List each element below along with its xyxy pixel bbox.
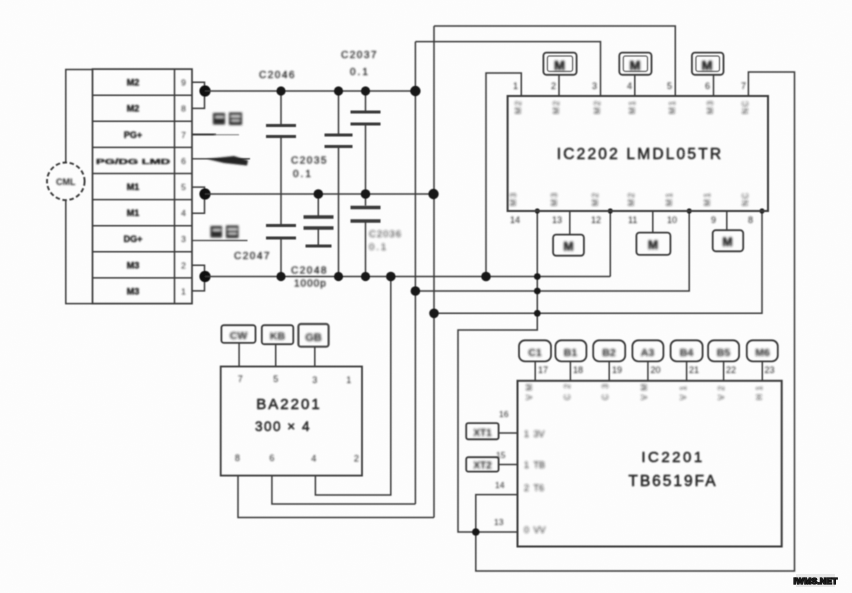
wire h3 to IC2202 pin 8 [434, 211, 762, 313]
capacitor C2047 label [234, 251, 271, 262]
driver IC2201 body [518, 381, 782, 547]
motor CML label [56, 177, 76, 187]
IC2202 title label [557, 146, 724, 163]
wire IC2202 pin 14 to IC2201 pin 13 [458, 211, 537, 532]
capacitor C2046 [266, 91, 296, 224]
BA2201 top pin numbers [238, 374, 352, 385]
net label box IC2201 pin 23 [747, 340, 778, 361]
net label box pin 13 [553, 211, 584, 256]
wire top bus M2 [205, 90, 415, 92]
wire pin 6 arrow [192, 158, 250, 160]
net label box IC2201 pin 18 [555, 340, 586, 361]
net label box IC2201 pin 21 [671, 340, 703, 361]
net label box IC2201 pin 22 [708, 340, 739, 361]
IC2202 bottom pin numbers [510, 215, 753, 225]
net label box pin 2 text [554, 58, 565, 73]
junction dot h3 start [429, 309, 439, 319]
node M3 junction [199, 271, 210, 282]
junction dot pin13-14 cross [472, 528, 480, 536]
wire mid bus M1 [205, 193, 434, 195]
wire IC2202 pin 3 top hook [415, 42, 600, 96]
net label box IC2201 pin 20 text [641, 347, 655, 359]
junction dots h1 [276, 272, 490, 282]
IC2201 top pin wires [535, 361, 762, 380]
wire h2 to IC2202 pin 10 [415, 211, 689, 291]
net label box BA pin 3 text [305, 332, 322, 344]
capacitor C2047 [266, 226, 296, 277]
net label box IC2201 pin 22 text [717, 347, 731, 359]
IC2201 title label [628, 449, 717, 490]
annotation speed label pin 3 [211, 226, 239, 239]
net label box IC2201 pin 19 [593, 340, 625, 361]
IC2202 internal bottom pin names [509, 192, 750, 206]
IC2202 internal bottom marks [512, 176, 752, 178]
wire bracket pins 5-4 [192, 187, 205, 213]
net label box pin 4 [619, 53, 651, 96]
BA2201 bottom pin numbers [235, 453, 359, 464]
wire motor to connector bottom [66, 200, 93, 304]
node M1 junction [199, 188, 210, 199]
capacitor C2036 [351, 194, 381, 277]
op-amp IC2202 body [508, 96, 768, 211]
net label box IC2201 pin 18 text [564, 347, 578, 359]
wire pin 3 DG+ stub [192, 240, 248, 242]
wire IC2202 pin 1 hook [486, 73, 521, 277]
wire IC2202 pin 5 top hook [434, 26, 675, 96]
net label box IC2201 pin 20 [632, 340, 663, 361]
junction dots mid bus [314, 189, 439, 199]
arrowhead pin 6 [207, 156, 248, 166]
net label box BA pin 7 [221, 325, 255, 366]
IC2201 internal top pin names [525, 383, 764, 400]
wire BA2201 pin 6 link [272, 476, 416, 504]
net label box BA pin 3 [298, 324, 328, 367]
net label box IC2201 pin 16 text [473, 428, 492, 439]
net label box BA pin 5 [262, 325, 294, 366]
net label box IC2201 pin 15 [466, 457, 517, 471]
connector CN2 table [93, 69, 193, 304]
net label box pin 6 text [702, 58, 713, 73]
net label box BA pin 7 text [230, 330, 248, 342]
IC2201 top pin numbers [538, 365, 775, 375]
connector pin numbers [181, 78, 186, 297]
wire vertical rail x434 [433, 26, 435, 518]
wire IC2202 pin 12 drop [609, 211, 611, 277]
BA2201 title label [255, 396, 322, 434]
net label box pin 4 text [630, 58, 641, 73]
capacitor C2046 label [259, 70, 296, 81]
junction dots IC2202 bottom edge [535, 208, 765, 213]
net label box pin 11 [636, 211, 670, 255]
net label box pin 11 text [648, 238, 658, 252]
wire BA2201 pin 4 link [315, 277, 390, 496]
IC2202 internal top dashes [516, 129, 752, 131]
IC2202 top pin numbers [513, 81, 746, 91]
net label box pin 9 [713, 211, 744, 251]
capacitor C2036 label [369, 229, 402, 253]
capacitor C2037 [351, 91, 381, 194]
net label box pin 13 text [564, 240, 574, 254]
net label box IC2201 pin 16 [466, 423, 517, 439]
net label box IC2201 pin 23 text [755, 347, 770, 359]
wire bracket pins 2-1 [192, 265, 205, 291]
IC2201 left pin names [524, 429, 546, 535]
net label box IC2201 pin 17 text [528, 347, 542, 359]
svg-text:IWMS.NET: IWMS.NET [793, 576, 838, 586]
junction dots top bus [276, 86, 420, 96]
net label box IC2201 pin 15 text [473, 461, 492, 472]
IC2201 left pin numbers [494, 409, 509, 527]
capacitor C2035 [325, 91, 353, 277]
wire BA2201 pin 8 link [238, 476, 434, 518]
annotation speed label pin 7 [213, 113, 242, 126]
capacitor C2048 label [291, 266, 328, 290]
wire bracket pins 9-8 [192, 82, 205, 108]
junction dot h2 start [411, 286, 421, 296]
net label box pin 6 [692, 53, 724, 96]
net label box pin 2 [543, 53, 576, 96]
watermark IWMS.NET [793, 574, 838, 587]
wire pin 7 PG+ stub [192, 134, 239, 136]
connector pin labels [96, 78, 171, 297]
capacitor C2048 [304, 194, 334, 246]
node M2 junction [199, 85, 210, 96]
net label box IC2201 pin 21 text [680, 347, 694, 359]
wire motor to connector top [66, 70, 93, 163]
wire vertical rail x415 [414, 42, 416, 504]
net label box BA pin 5 text [270, 331, 286, 343]
net label box IC2201 pin 19 text [602, 347, 616, 359]
motor CML [47, 163, 85, 201]
capacitor C2037 label [341, 50, 378, 78]
resistor network BA2201 body [221, 367, 362, 476]
IC2202 internal top pin names [514, 100, 750, 114]
capacitor C2035 label [291, 156, 328, 181]
net label box IC2201 pin 17 [519, 340, 551, 361]
net label box pin 9 text [723, 235, 733, 249]
junction dots pin14 column [534, 273, 541, 317]
wire h1 bus M3 [205, 276, 610, 278]
IC2201 internal top marks [528, 415, 766, 417]
wire IC2202 pin 7 to IC2201 pin 14 [476, 72, 795, 571]
